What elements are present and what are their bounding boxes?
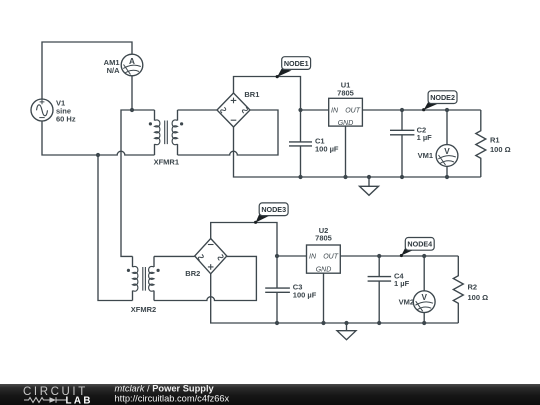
svg-text:mtclark / Power Supply: mtclark / Power Supply	[115, 383, 215, 393]
svg-text:OUT: OUT	[323, 254, 339, 261]
svg-text:NODE4: NODE4	[407, 240, 432, 249]
svg-text:XFMR1: XFMR1	[154, 158, 179, 167]
svg-text:BR2: BR2	[185, 269, 200, 278]
svg-text:IN: IN	[309, 254, 317, 261]
svg-text:http://circuitlab.com/c4fz66x: http://circuitlab.com/c4fz66x	[115, 394, 230, 404]
svg-text:100 µF: 100 µF	[293, 290, 317, 299]
svg-text:IN: IN	[331, 108, 339, 115]
svg-text:R2: R2	[468, 283, 478, 292]
svg-text:1 µF: 1 µF	[417, 133, 433, 142]
svg-text:LAB: LAB	[66, 395, 93, 405]
svg-text:N/A: N/A	[107, 66, 121, 75]
svg-text:NODE3: NODE3	[261, 205, 286, 214]
svg-text:OUT: OUT	[345, 108, 361, 115]
svg-text:A: A	[129, 57, 135, 66]
svg-text:XFMR2: XFMR2	[131, 305, 156, 314]
svg-text:V: V	[421, 293, 427, 302]
svg-text:GND: GND	[338, 120, 354, 127]
svg-text:VM1: VM1	[418, 151, 433, 160]
svg-text:100 Ω: 100 Ω	[490, 145, 511, 154]
svg-text:NODE2: NODE2	[430, 93, 455, 102]
svg-text:NODE1: NODE1	[284, 59, 309, 68]
svg-text:100 µF: 100 µF	[315, 144, 339, 153]
svg-text:V: V	[444, 147, 450, 156]
svg-text:60 Hz: 60 Hz	[56, 115, 76, 124]
svg-text:GND: GND	[316, 266, 332, 273]
svg-text:BR1: BR1	[244, 90, 259, 99]
svg-text:R1: R1	[490, 136, 500, 145]
svg-text:7805: 7805	[337, 89, 354, 98]
svg-text:100 Ω: 100 Ω	[468, 293, 489, 302]
svg-text:VM2: VM2	[399, 297, 414, 306]
svg-text:1 µF: 1 µF	[394, 279, 410, 288]
svg-text:7805: 7805	[315, 233, 332, 242]
